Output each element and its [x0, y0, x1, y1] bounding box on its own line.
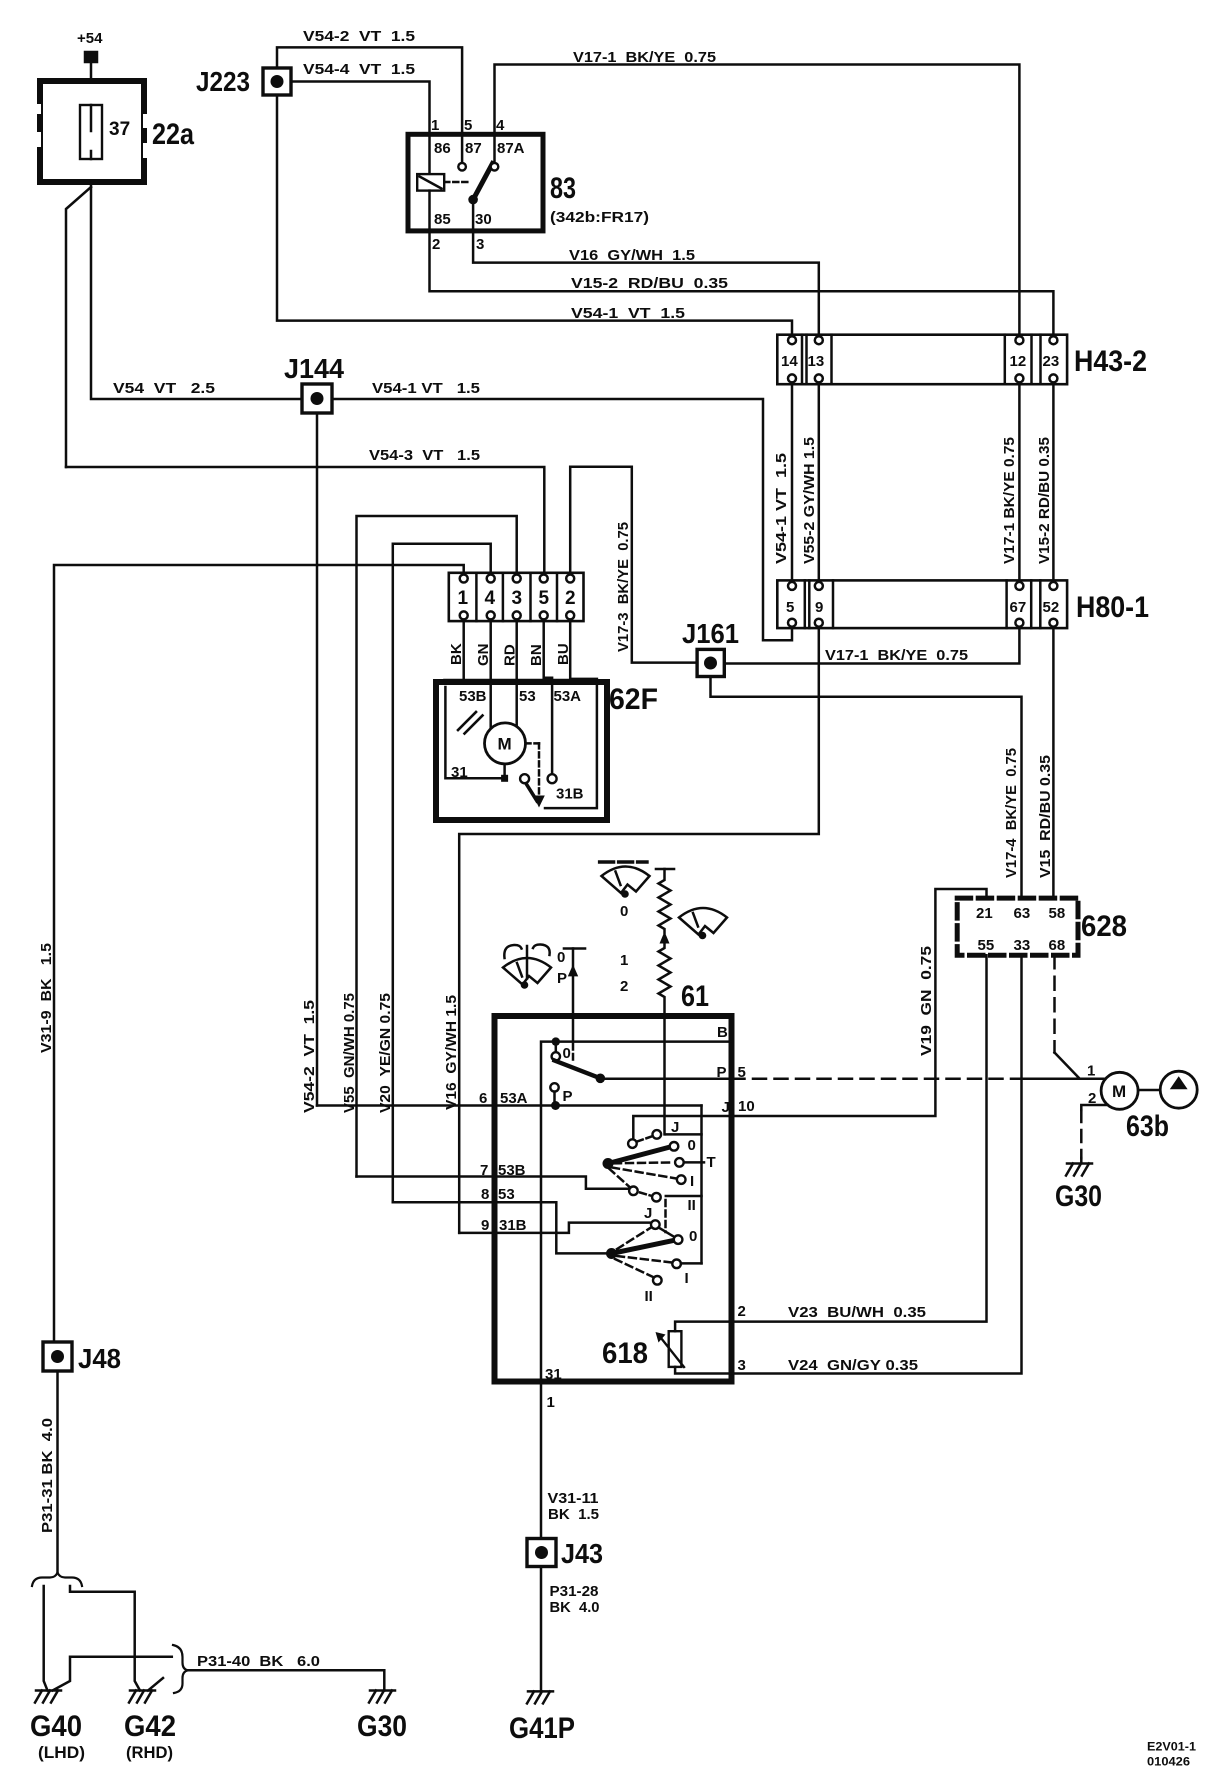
svg-text:BK 1.5: BK 1.5 [548, 1506, 599, 1523]
svg-text:E2V01-1: E2V01-1 [1147, 1740, 1196, 1754]
svg-text:0: 0 [689, 1228, 697, 1245]
svg-text:0: 0 [563, 1045, 571, 1062]
svg-text:V54 VT 2.5: V54 VT 2.5 [113, 380, 215, 397]
junction J223 [263, 68, 291, 95]
wiper motor 62F box [436, 682, 607, 820]
svg-text:H80-1: H80-1 [1076, 591, 1149, 624]
svg-text:RD: RD [502, 644, 519, 666]
62F park switch [526, 742, 540, 745]
svg-text:BN: BN [528, 644, 545, 666]
wire V15 RD/BU 0.35 (H80-1 pin 52 to 628 pin 58) [1052, 628, 1055, 898]
junction J43 [527, 1539, 556, 1567]
svg-text:14: 14 [781, 353, 798, 370]
svg-text:V20 YE/GN 0.75: V20 YE/GN 0.75 [377, 993, 394, 1113]
svg-text:H43-2: H43-2 [1074, 345, 1147, 378]
svg-text:P31-31 BK 4.0: P31-31 BK 4.0 [39, 1418, 56, 1533]
connector H43-2 [777, 335, 1067, 385]
svg-text:+54: +54 [77, 30, 103, 47]
svg-text:(LHD): (LHD) [38, 1743, 85, 1762]
wire P31-28 BK 4.0 (J43 to G41P) [540, 1567, 543, 1692]
svg-text:85: 85 [434, 211, 451, 228]
relay 83 [408, 134, 543, 231]
svg-text:63: 63 [1014, 905, 1031, 922]
svg-text:G41P: G41P [509, 1712, 575, 1745]
wire V54-3 VT 1.5 (to connector pin 5) [66, 467, 544, 573]
svg-text:31: 31 [545, 1366, 562, 1383]
junction J161 [697, 649, 724, 676]
svg-text:P: P [557, 970, 567, 987]
washer wiper icon (with spray) [503, 958, 551, 985]
svg-text:86: 86 [434, 140, 451, 157]
svg-text:5: 5 [539, 588, 550, 609]
svg-text:V17-1 BK/YE 0.75: V17-1 BK/YE 0.75 [825, 647, 968, 664]
svg-text:G40: G40 [30, 1710, 82, 1743]
brace over G40/G42 split [32, 1573, 82, 1587]
wire V17-1 BK/YE 0.75 (relay pin 4 to H43-2 pin 12) [495, 65, 1020, 335]
svg-text:V54-1 VT 1.5: V54-1 VT 1.5 [571, 305, 685, 322]
svg-text:V31-11: V31-11 [548, 1490, 599, 1507]
fuse 37 [80, 105, 102, 159]
wire 63b pin 2 to ground G30 [1081, 1105, 1107, 1110]
svg-text:J: J [722, 1099, 730, 1116]
wire V54-2 VT 1.5 (J223 to relay pin 5) [277, 47, 462, 134]
svg-text:V16 GY/WH 1.5: V16 GY/WH 1.5 [443, 995, 460, 1110]
wire RD (pin 3 to 62F motor) [515, 621, 518, 727]
svg-text:8: 8 [481, 1186, 489, 1203]
svg-text:23: 23 [1043, 353, 1060, 370]
svg-text:53A: 53A [554, 688, 582, 705]
svg-text:7: 7 [480, 1162, 488, 1179]
svg-text:BK: BK [448, 643, 465, 665]
svg-text:6: 6 [479, 1090, 487, 1107]
svg-text:V23 BU/WH 0.35: V23 BU/WH 0.35 [788, 1304, 926, 1321]
svg-text:61: 61 [681, 980, 709, 1013]
svg-text:1: 1 [458, 588, 469, 609]
svg-text:J223: J223 [196, 66, 250, 97]
relay switch contacts [461, 134, 464, 162]
connector block 1 4 3 5 2 [449, 573, 584, 621]
svg-text:53B: 53B [498, 1162, 526, 1179]
svg-text:2: 2 [565, 588, 576, 609]
wire V17-4 BK/YE 0.75 (J161 to connector 628 pin 63) [711, 677, 1022, 899]
ground G30 (at washer pump) [1066, 1164, 1092, 1176]
wire V15-2 RD/BU 0.35 (relay pin 2 to H43-2 pin 23) [430, 231, 1054, 335]
wire 53A (into switch 61, node 53A) [317, 1104, 702, 1107]
washer pump 63b [1101, 1072, 1138, 1109]
wire V20 YE/GN 0.75 (connector pin 4 to switch 61 pin 8 / 53) [393, 544, 491, 1203]
svg-text:J: J [671, 1119, 679, 1136]
svg-text:G30: G30 [1055, 1180, 1102, 1213]
wire to ground G42 [70, 1586, 140, 1691]
62F ground bus 31 [445, 687, 504, 778]
svg-text:63b: 63b [1126, 1110, 1169, 1143]
svg-text:1: 1 [431, 117, 439, 134]
wire V31-11 BK 1.5 (61 pin 31 to J43) [540, 1382, 543, 1539]
junction J144 [302, 384, 332, 413]
61 node B wire and ground line 31 [541, 1042, 732, 1382]
svg-text:37: 37 [109, 119, 130, 140]
wire V54-1 VT 1.5 (J144 to H80-1 pin 5 bottom) [332, 399, 792, 640]
svg-text:V16 GY/WH 1.5: V16 GY/WH 1.5 [569, 247, 695, 264]
svg-text:13: 13 [808, 353, 825, 370]
svg-text:9: 9 [481, 1217, 489, 1234]
svg-text:P: P [563, 1088, 573, 1105]
svg-text:V54-1 VT 1.5: V54-1 VT 1.5 [372, 380, 480, 397]
svg-text:P31-28: P31-28 [550, 1583, 599, 1600]
svg-text:3: 3 [738, 1357, 746, 1374]
svg-text:I: I [685, 1270, 689, 1287]
svg-text:67: 67 [1010, 599, 1027, 616]
wire fuse 22a down to V54-3 [66, 187, 91, 467]
61 wire J 10 [633, 1116, 731, 1139]
svg-text:1: 1 [1087, 1063, 1095, 1080]
svg-text:3: 3 [476, 236, 484, 253]
svg-text:55: 55 [978, 937, 995, 954]
svg-text:52: 52 [1043, 599, 1060, 616]
svg-text:J144: J144 [284, 353, 344, 384]
svg-text:(RHD): (RHD) [126, 1743, 173, 1762]
svg-text:I: I [690, 1173, 694, 1190]
wire P 5 dashed (61 pin 5 to washer pump 63b pin 1) [732, 1078, 1027, 1081]
svg-text:1: 1 [620, 952, 628, 969]
wire V54-4 VT 1.5 (J223 to relay pin 1) [291, 82, 430, 135]
svg-text:2: 2 [432, 236, 440, 253]
wire 628 pin 68 dashed (to washer pump) [1053, 955, 1056, 1052]
intermittent wiper icon (dashed) [600, 860, 647, 863]
wire J 10 / V19 GN 0.75 (61 pin 10 to 628 pin 21) [732, 889, 987, 1116]
svg-text:628: 628 [1081, 910, 1127, 943]
ground G41P [527, 1691, 553, 1703]
61 washer lever [555, 1042, 558, 1053]
svg-text:87: 87 [465, 140, 482, 157]
svg-text:V54-4 VT 1.5: V54-4 VT 1.5 [303, 61, 415, 78]
svg-text:4: 4 [496, 117, 505, 134]
wiper speed resistor with positions 1 2 [656, 868, 674, 871]
wiper icon (right) [679, 908, 727, 935]
svg-text:31B: 31B [556, 786, 584, 803]
svg-text:V17-1 BK/YE 0.75: V17-1 BK/YE 0.75 [573, 49, 716, 66]
svg-text:V54-3 VT 1.5: V54-3 VT 1.5 [369, 447, 480, 464]
svg-text:V55-2 GY/WH 1.5: V55-2 GY/WH 1.5 [801, 437, 818, 564]
wire V31-9 BK 1.5 (connector pin 1 to J48) [54, 565, 464, 1342]
wire V17-1 BK/YE 0.75 (H43-2 pin 12 to H80-1 pin 67) [1018, 384, 1021, 580]
relay coil [428, 134, 431, 174]
svg-text:T: T [707, 1154, 716, 1171]
svg-text:0: 0 [557, 949, 565, 966]
svg-text:BU: BU [555, 643, 572, 665]
svg-text:0: 0 [620, 903, 628, 920]
wire V55 GN/WH 0.75 (connector pin 3 to switch 61 pin 7 / 53B) [357, 516, 517, 1177]
svg-text:0: 0 [688, 1137, 696, 1154]
svg-text:J: J [644, 1205, 652, 1222]
svg-text:M: M [498, 735, 512, 754]
svg-text:GN: GN [475, 644, 492, 667]
svg-text:V55 GN/WH 0.75: V55 GN/WH 0.75 [341, 993, 358, 1113]
svg-text:58: 58 [1049, 905, 1066, 922]
svg-text:V54-2 VT 1.5: V54-2 VT 1.5 [303, 28, 415, 45]
wire V23 BU/WH 0.35 (61 pin 2 to 628 pin 55) [675, 955, 986, 1331]
svg-text:V17-3 BK/YE 0.75: V17-3 BK/YE 0.75 [615, 522, 632, 652]
svg-text:G30: G30 [357, 1710, 407, 1743]
svg-text:12: 12 [1010, 353, 1027, 370]
wire V16 GY/WH 1.5 (H80-1 pin 9 to switch 61 pin 9 / 31B) [459, 628, 819, 1233]
svg-text:618: 618 [602, 1337, 648, 1370]
svg-text:9: 9 [815, 599, 823, 616]
svg-text:V17-1 BK/YE 0.75: V17-1 BK/YE 0.75 [1001, 437, 1018, 564]
svg-text:2: 2 [738, 1303, 746, 1320]
wire V54-1 VT 1.5 (H43-2 pin 14 to H80-1 pin 5) [791, 384, 794, 580]
svg-text:22a: 22a [152, 118, 194, 151]
svg-text:BK 4.0: BK 4.0 [550, 1599, 600, 1616]
svg-text:5: 5 [786, 599, 794, 616]
brace at P31-40 [173, 1645, 188, 1693]
wire V17-1 BK/YE 0.75 (J161 to H80-1 pin 67) [724, 628, 1019, 663]
ground G40 [35, 1691, 61, 1703]
svg-text:5: 5 [464, 117, 472, 134]
wire V24 GN/GY 0.35 (61 pin 3 to 628 pin 33) [675, 955, 1021, 1373]
svg-text:53: 53 [498, 1186, 515, 1203]
wire BU (pin 2 to 62F contact 31B) [545, 621, 597, 808]
62F connector collar [444, 680, 597, 685]
svg-text:V15 RD/BU 0.35: V15 RD/BU 0.35 [1037, 755, 1054, 878]
svg-text:33: 33 [1014, 937, 1031, 954]
svg-text:II: II [688, 1197, 696, 1214]
svg-text:010426: 010426 [1147, 1755, 1190, 1769]
wire V55-2 GY/WH 1.5 (H43-2 pin 13 to H80-1 pin 9) [818, 384, 821, 580]
fuse box 22a [40, 81, 144, 182]
wire BK (pin 1 to 62F) [462, 621, 465, 679]
svg-text:V17-4 BK/YE 0.75: V17-4 BK/YE 0.75 [1003, 748, 1020, 878]
svg-text:V54-2 VT 1.5: V54-2 VT 1.5 [301, 1000, 318, 1113]
motor M in 62F [485, 723, 526, 764]
svg-text:53B: 53B [459, 688, 487, 705]
svg-text:II: II [645, 1288, 653, 1305]
svg-text:21: 21 [976, 905, 993, 922]
svg-text:V19 GN 0.75: V19 GN 0.75 [918, 946, 935, 1056]
svg-text:(342b:FR17): (342b:FR17) [550, 209, 649, 226]
svg-text:V54-1 VT 1.5: V54-1 VT 1.5 [773, 453, 790, 564]
svg-text:J43: J43 [561, 1538, 603, 1569]
svg-text:53: 53 [519, 688, 536, 705]
wire P31-31 BK 4.0 (J48 down to split) [56, 1371, 59, 1573]
wire BN (pin 5 to 62F contact 53) [544, 621, 552, 774]
svg-text:B: B [717, 1024, 728, 1041]
svg-text:V15-2 RD/BU 0.35: V15-2 RD/BU 0.35 [571, 275, 728, 292]
wire to ground G40 [44, 1586, 48, 1691]
wire V16 GY/WH 1.5 (relay pin 3 to H43-2 pin 13) [473, 231, 819, 335]
svg-text:J161: J161 [682, 618, 739, 649]
svg-text:4: 4 [485, 588, 496, 609]
ground G42 [129, 1691, 155, 1703]
wire P31-40 BK 6.0 (to G30) [188, 1670, 384, 1690]
svg-text:53A: 53A [500, 1090, 528, 1107]
svg-text:V24 GN/GY 0.35: V24 GN/GY 0.35 [788, 1357, 918, 1374]
svg-text:10: 10 [738, 1098, 755, 1115]
wire V15-2 RD/BU 0.35 (H43-2 pin 23 to H80-1 pin 52) [1052, 384, 1055, 580]
61 wire P 5 (to washer pump, dashed) [600, 1078, 731, 1081]
61 intermittent deck [666, 1133, 702, 1136]
svg-text:83: 83 [550, 172, 576, 205]
junction J48 [43, 1342, 72, 1371]
wire GN (pin 4 to 62F motor) [489, 621, 492, 728]
svg-text:30: 30 [475, 211, 492, 228]
svg-text:68: 68 [1049, 937, 1066, 954]
svg-text:V31-9 BK 1.5: V31-9 BK 1.5 [38, 943, 55, 1053]
svg-text:V15-2 RD/BU 0.35: V15-2 RD/BU 0.35 [1036, 437, 1053, 564]
stalk position line 0/P with arrow [564, 947, 585, 950]
ground G30 (bottom) [369, 1691, 395, 1703]
svg-text:87A: 87A [497, 140, 525, 157]
svg-text:M: M [1112, 1082, 1126, 1101]
svg-text:1: 1 [547, 1394, 555, 1411]
svg-text:62F: 62F [609, 683, 658, 716]
wire V54-1 VT 1.5 (J223 to H43-2 pin 14) [277, 95, 792, 335]
wire V17-3 BK/YE 0.75 (connector pin 2 to J161) [570, 467, 697, 663]
svg-text:P31-40 BK 6.0: P31-40 BK 6.0 [197, 1653, 320, 1670]
connector 628 (dashed box) [957, 898, 1078, 955]
wire V54 VT 2.5 (fuse 22a to J144) [91, 185, 302, 399]
svg-text:2: 2 [620, 978, 628, 995]
svg-text:J48: J48 [78, 1343, 121, 1374]
wire V54-2 VT 1.5 (J144 down to switch 61 pin 6 / 53A) [316, 413, 319, 1106]
svg-text:3: 3 [512, 588, 523, 609]
svg-text:31B: 31B [499, 1217, 527, 1234]
svg-text:G42: G42 [124, 1710, 176, 1743]
connector H80-1 [777, 580, 1067, 628]
switch unit 61 box [495, 1016, 732, 1382]
61 speed deck [664, 1200, 667, 1232]
